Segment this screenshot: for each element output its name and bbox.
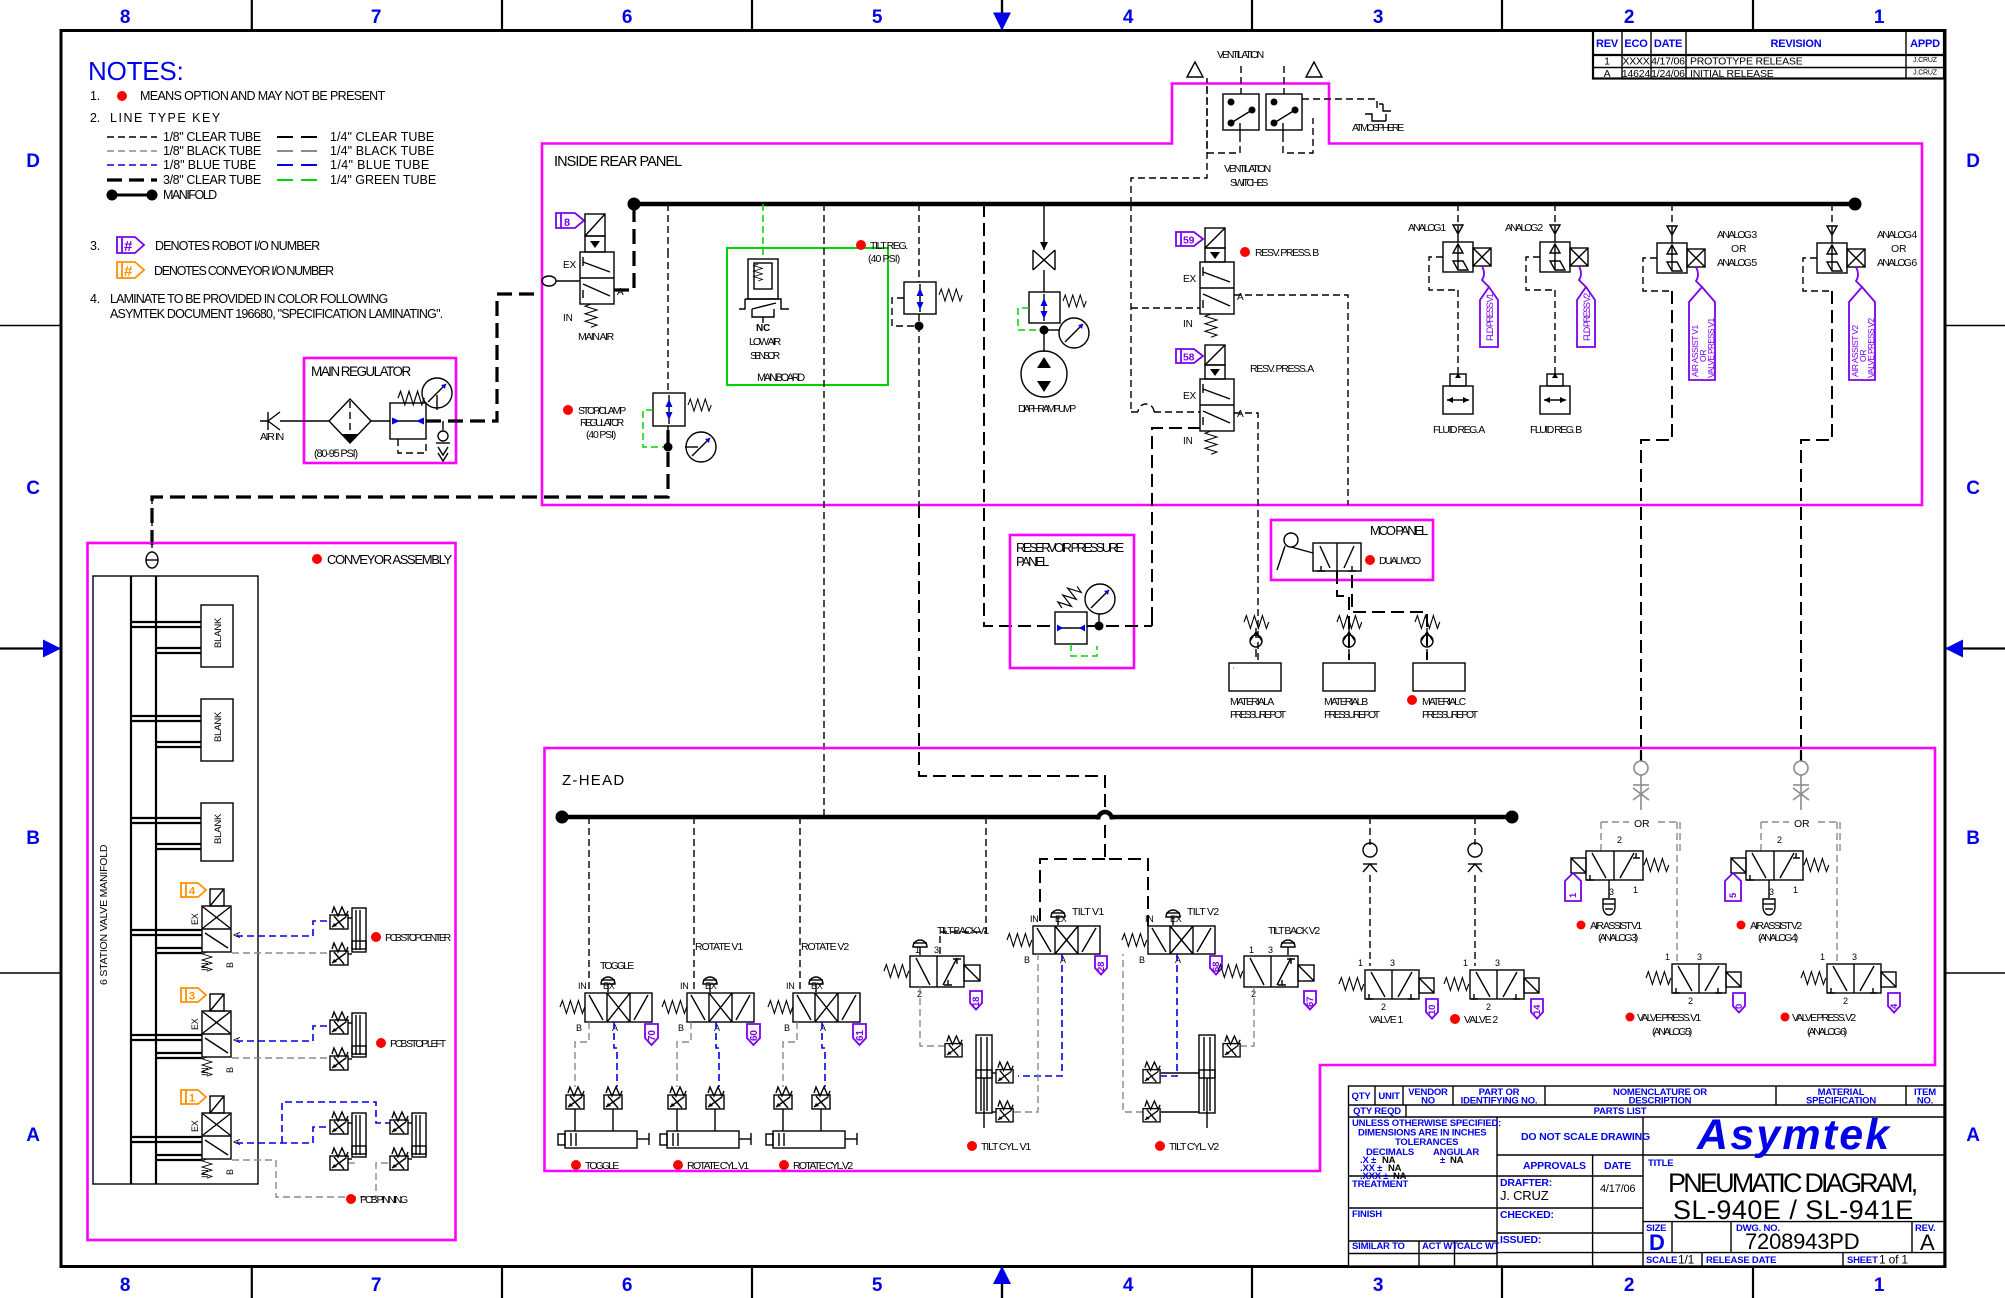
svg-text:LINE TYPE KEY: LINE TYPE KEY (110, 111, 221, 125)
svg-text:3: 3 (1769, 887, 1774, 897)
wires: ventilation dashes (1240, 66, 1242, 94)
wire: material region to z-head tilt network (1104, 816, 1106, 818)
flow controls + cylinder PCB PINNING 2 (346, 1112, 426, 1206)
svg-text:18: 18 (971, 997, 982, 1007)
svg-text:LOW AIR: LOW AIR (749, 336, 782, 348)
flow controls + cylinder PCB PINNING 1 (330, 1112, 366, 1170)
svg-text:IN: IN (1145, 914, 1154, 924)
svg-text:BLANK: BLANK (213, 711, 224, 742)
ventilation switch 2 (1266, 94, 1302, 135)
svg-text:EX: EX (190, 1018, 200, 1030)
svg-text:PRESSURE POT: PRESSURE POT (1230, 709, 1287, 721)
svg-text:A: A (1175, 955, 1181, 965)
cylinder TILT CYL. V2 (1143, 1035, 1240, 1153)
wire: tilt v1 A to tilt cyl v1 (1018, 954, 1062, 1076)
svg-text:MATERIAL C: MATERIAL C (1422, 696, 1467, 708)
svg-text:VALVE PRESS V2: VALVE PRESS V2 (1866, 318, 1876, 378)
valve MAIN AIR (robot IO 8) (542, 213, 624, 343)
svg-text:IN: IN (1030, 914, 1039, 924)
valve AIR ASSIST V1 (robot IO 1) (1565, 835, 1669, 944)
check valve drop to valve 2 (1474, 817, 1476, 845)
svg-text:VALVE 2: VALVE 2 (1464, 1014, 1498, 1026)
filter F1 (329, 399, 371, 443)
svg-text:1: 1 (1358, 958, 1363, 968)
svg-text:1: 1 (1874, 7, 1885, 28)
svg-text:(ANALOG 5): (ANALOG 5) (1652, 1026, 1692, 1038)
svg-text:6: 6 (622, 1275, 632, 1296)
svg-text:EX: EX (1183, 391, 1196, 402)
svg-text:1/8" BLUE TUBE: 1/8" BLUE TUBE (163, 158, 256, 172)
svg-text:A: A (820, 1023, 826, 1033)
valve STOP/CLAMP REGULATOR (563, 393, 716, 462)
svg-text:PCB PINNING: PCB PINNING (360, 1194, 408, 1206)
svg-text:D: D (1649, 1230, 1665, 1255)
svg-text:TILT V2: TILT V2 (1187, 906, 1219, 918)
svg-text:1: 1 (1820, 952, 1825, 962)
wire: tilt v2 A to tilt cyl v2 (1161, 954, 1177, 1076)
svg-text:RELEASE DATE: RELEASE DATE (1706, 1255, 1776, 1266)
svg-text:IN: IN (1183, 319, 1193, 330)
svg-text:4: 4 (1123, 7, 1134, 28)
svg-text:(80-95 PSI): (80-95 PSI) (314, 448, 358, 460)
wire: stop/clamp vertical dashed (667, 251, 669, 393)
svg-text:EX: EX (811, 981, 823, 991)
blank station 3 (131, 803, 233, 861)
blank station 2 (131, 699, 233, 761)
svg-text:DUAL MCO: DUAL MCO (1379, 555, 1421, 567)
svg-text:REVISION: REVISION (1771, 38, 1822, 50)
svg-text:1/24/06: 1/24/06 (1651, 68, 1685, 80)
svg-text:A: A (612, 1023, 618, 1033)
svg-text:VENTILATION: VENTILATION (1217, 49, 1264, 61)
svg-text:FINISH: FINISH (1352, 1209, 1382, 1220)
svg-text:ANALOG 6: ANALOG 6 (1877, 257, 1917, 269)
svg-text:EX: EX (1055, 914, 1067, 924)
svg-text:SWITCHES: SWITCHES (1230, 177, 1268, 189)
flow controls + cylinder ROTATE CYL. V1 (660, 1087, 751, 1172)
svg-text:DIAPHRAM PUMP: DIAPHRAM PUMP (1018, 403, 1076, 415)
svg-text:BLANK: BLANK (213, 813, 224, 844)
valve TILT REG (856, 240, 962, 331)
svg-text:NA: NA (1450, 1155, 1464, 1166)
svg-text:B: B (576, 1023, 582, 1033)
svg-text:2: 2 (1688, 996, 1693, 1006)
svg-text:PANEL: PANEL (1016, 554, 1049, 569)
wires: station4 to pcb stop center (236, 921, 330, 936)
svg-text:3: 3 (1373, 1275, 1383, 1296)
svg-text:1/4" BLACK TUBE: 1/4" BLACK TUBE (330, 144, 434, 158)
wire: 3/8 feed down-left to conveyor (152, 430, 668, 545)
valve ANALOG 2 fluid press (1505, 222, 1595, 347)
pot MATERIAL B PRESSURE POT (1323, 663, 1381, 721)
wires: MCO outputs to pots (1337, 571, 1349, 660)
svg-text:FLUID REG. B: FLUID REG. B (1530, 424, 1582, 436)
svg-text:Asymtek: Asymtek (1696, 1111, 1891, 1159)
wires: analog3/4 drops to z-head right (1641, 291, 1672, 755)
flow controls + cylinder TOGGLE (558, 1087, 649, 1172)
wires: station3 to pcb stop left (236, 1026, 330, 1041)
svg-text:8: 8 (120, 1275, 130, 1296)
svg-text:(ANALOG 3): (ANALOG 3) (1598, 932, 1638, 944)
svg-text:1: 1 (1463, 958, 1468, 968)
svg-text:IN: IN (786, 981, 795, 991)
gauge G1 (422, 378, 452, 410)
svg-text:60: 60 (749, 1030, 760, 1041)
wires: station1 gray returns (232, 1160, 390, 1197)
check valve CV1 (436, 421, 450, 461)
atmosphere symbol (1352, 104, 1404, 134)
conveyor IO tag sample (117, 262, 144, 278)
svg-text:ROTATE V1: ROTATE V1 (695, 941, 743, 953)
wire: manifold feed to reservoir panel at 984 (984, 204, 1056, 626)
Z-HEAD box (545, 748, 1936, 1171)
title block labels left (1352, 1179, 1500, 1252)
wires: manifold drops to analog valves (1457, 204, 1459, 234)
svg-text:70: 70 (647, 1030, 658, 1041)
svg-text:B: B (678, 1023, 684, 1033)
low air sensor NC switch (739, 259, 789, 334)
check valve drop to valve 1 (1369, 817, 1371, 845)
svg-text:1: 1 (1249, 945, 1254, 955)
svg-text:TILT V1: TILT V1 (1072, 906, 1104, 918)
svg-text:1: 1 (189, 1093, 195, 1105)
svg-text:A: A (232, 1037, 242, 1043)
svg-text:AIR IN: AIR IN (260, 431, 284, 443)
svg-text:4/17/06: 4/17/06 (1600, 1183, 1635, 1195)
svg-text:14624: 14624 (1622, 68, 1651, 80)
wire: bold dashed feed to tilt network (919, 505, 1105, 809)
INSIDE REAR PANEL box (542, 84, 1922, 506)
svg-text:ANALOG 2: ANALOG 2 (1505, 222, 1543, 234)
svg-text:2: 2 (1843, 996, 1848, 1006)
cylinder TILT CYL. V1 (945, 1035, 1031, 1153)
svg-text:MANIFOLD: MANIFOLD (163, 188, 217, 202)
svg-text:A: A (1604, 68, 1611, 80)
svg-text:ANALOG 1: ANALOG 1 (1408, 222, 1446, 234)
svg-text:2.: 2. (90, 111, 100, 125)
conveyor valve station tag 4 (181, 883, 206, 898)
svg-text:D: D (1966, 151, 1980, 172)
wire: resv B output to MCO (1234, 295, 1348, 505)
svg-text:EX: EX (1170, 914, 1182, 924)
svg-text:3: 3 (934, 945, 939, 955)
valve TILT V1 (robot IO 28) (1007, 906, 1107, 975)
svg-text:3: 3 (1609, 887, 1614, 897)
pot MATERIAL A PRESSURE POT (1229, 663, 1287, 721)
wire: gray return tilt cyl v1 (1014, 954, 1038, 1112)
svg-text:SPECIFICATION: SPECIFICATION (1806, 1096, 1876, 1107)
wire: main air A port up to manifold (614, 204, 634, 290)
svg-text:3: 3 (1852, 952, 1857, 962)
wire filter to regulator (371, 420, 390, 422)
parts list header labels (1352, 1087, 1937, 1117)
svg-text:IN: IN (563, 313, 573, 324)
valve ROTATE V1 (robot IO 60) (662, 941, 760, 1045)
svg-text:CALC WT: CALC WT (1457, 1241, 1500, 1252)
svg-text:1: 1 (1633, 885, 1638, 895)
svg-text:MATERIAL B: MATERIAL B (1324, 696, 1368, 708)
svg-text:OR: OR (1794, 818, 1810, 830)
svg-text:APPROVALS: APPROVALS (1523, 1160, 1586, 1172)
svg-text:SHEET: SHEET (1847, 1255, 1878, 1266)
svg-text:NOTES:: NOTES: (88, 56, 184, 86)
svg-text:1: 1 (1604, 56, 1610, 68)
svg-text:4/17/06: 4/17/06 (1651, 56, 1685, 68)
svg-text:3: 3 (1390, 958, 1395, 968)
approvals block (1500, 1131, 1650, 1246)
CONVEYOR ASSEMBLY box (88, 543, 456, 1240)
valve RESV. PRESS. A (robot IO 58) (1176, 345, 1314, 454)
svg-text:INITIAL RELEASE: INITIAL RELEASE (1690, 68, 1774, 80)
wire: main regulator output 3/8 tube to main air valve (426, 294, 540, 421)
svg-text:TILT CYL. V2: TILT CYL. V2 (1169, 1141, 1219, 1153)
zone tick marks bottom (251, 1266, 253, 1298)
svg-text:MEANS OPTION AND MAY NOT BE PR: MEANS OPTION AND MAY NOT BE PRESENT (140, 89, 386, 103)
valve RESV. PRESS. B (robot IO 59) (1176, 228, 1319, 337)
svg-text:ACT WT: ACT WT (1422, 1241, 1458, 1252)
svg-text:DESCRIPTION: DESCRIPTION (1629, 1096, 1692, 1107)
svg-text:NC: NC (756, 323, 770, 334)
svg-text:(40 PSI): (40 PSI) (868, 253, 900, 265)
svg-text:MATERIAL A: MATERIAL A (1230, 696, 1274, 708)
manifold bus (inside rear panel) (628, 198, 1862, 211)
valve TOGGLE (robot IO 70) (560, 960, 658, 1045)
svg-text:3.: 3. (90, 239, 100, 253)
svg-text:MAIN AIR: MAIN AIR (578, 331, 615, 343)
wires: reservoir panel feeds (1087, 620, 1152, 626)
manifold inlet fitting (146, 552, 158, 568)
svg-text:B: B (1966, 828, 1980, 849)
svg-text:B: B (1024, 955, 1030, 965)
svg-text:LAMINATE TO BE PROVIDED IN COL: LAMINATE TO BE PROVIDED IN COLOR FOLLOWI… (110, 292, 388, 306)
svg-text:67: 67 (1305, 997, 1316, 1007)
svg-text:4.: 4. (90, 292, 100, 306)
valve TILT BACK V2 (robot IO 67) (1218, 925, 1320, 1010)
svg-text:RESERVOIR PRESSURE: RESERVOIR PRESSURE (1016, 540, 1125, 555)
svg-text:PCB STOP CENTER: PCB STOP CENTER (385, 932, 452, 944)
svg-text:A: A (1060, 955, 1066, 965)
ventilation triangles (1187, 62, 1203, 77)
svg-text:5: 5 (872, 7, 883, 28)
svg-text:10: 10 (1427, 1005, 1438, 1015)
svg-text:7: 7 (371, 7, 381, 28)
svg-text:61: 61 (855, 1030, 866, 1041)
valve VALVE 2 (robot IO 14) (1444, 958, 1543, 1026)
svg-text:OR: OR (1634, 818, 1650, 830)
svg-text:ISSUED:: ISSUED: (1500, 1234, 1541, 1246)
valve station 1 (131, 1096, 242, 1178)
valve station 4 (131, 889, 242, 971)
wire: tilt back v2 port2 to tilt cyl v2 (1241, 987, 1254, 1046)
svg-text:IDENTIFYING NO.: IDENTIFYING NO. (1461, 1096, 1538, 1107)
wires: drops from z-head manifold (588, 817, 590, 993)
svg-text:6 STATION VALVE MANIFOLD: 6 STATION VALVE MANIFOLD (98, 844, 110, 985)
svg-text:2: 2 (1624, 1275, 1634, 1296)
svg-text:IN: IN (1183, 436, 1193, 447)
RESERVOIR PRESSURE PANEL box (1010, 535, 1134, 668)
svg-text:ROTATE CYL. V1: ROTATE CYL. V1 (687, 1160, 749, 1172)
flow controls + cylinder PCB STOP CENTER (330, 907, 452, 965)
valve ANALOG 1 fluid press (1408, 222, 1498, 347)
svg-text:MAIN REGULATOR: MAIN REGULATOR (311, 364, 411, 379)
svg-text:EX: EX (705, 981, 717, 991)
svg-text:(ANALOG 6): (ANALOG 6) (1807, 1026, 1847, 1038)
svg-text:PRESSURE POT: PRESSURE POT (1422, 709, 1479, 721)
svg-text:ROTATE CYL.V2: ROTATE CYL.V2 (793, 1160, 853, 1172)
svg-text:1/8" CLEAR TUBE: 1/8" CLEAR TUBE (163, 130, 261, 144)
svg-text:7208943PD: 7208943PD (1745, 1229, 1859, 1254)
svg-text:VALVE 1: VALVE 1 (1369, 1014, 1403, 1026)
air in port (260, 412, 284, 443)
svg-text:IN: IN (578, 981, 587, 991)
valve VALVE 1 (robot IO 10) (1339, 958, 1438, 1026)
svg-text:CHECKED:: CHECKED: (1500, 1209, 1554, 1221)
svg-text:1/4" BLUE TUBE: 1/4" BLUE TUBE (330, 158, 429, 172)
svg-text:SENSOR: SENSOR (750, 350, 781, 362)
valve TILT BACK V1 (robot IO 18) (884, 925, 989, 1010)
svg-text:B: B (784, 1023, 790, 1033)
wires: resv press feeds from manifold (1130, 204, 1132, 412)
wire: tilt back v1 port2 to tilt cyl v1 (920, 987, 949, 1046)
valve MCO (manual lever) (1277, 533, 1361, 571)
MAIN BOARD green box (727, 248, 888, 385)
valve VALVE PRESS. V2 (robot IO 4) (1781, 952, 1901, 1038)
svg-text:2: 2 (1381, 1002, 1386, 1012)
svg-text:DATE: DATE (1654, 38, 1682, 50)
svg-text:0: 0 (1734, 1004, 1745, 1009)
svg-text:3: 3 (1268, 945, 1273, 955)
svg-text:ASYMTEK DOCUMENT 196680, "SPEC: ASYMTEK DOCUMENT 196680, "SPECIFICATION … (110, 307, 443, 321)
regulator (reservoir) (1055, 583, 1115, 656)
svg-text:EX: EX (603, 981, 615, 991)
OR selector figure (air assist v2) (1793, 761, 1809, 810)
flow controls + cylinder ROTATE CYL.V2 (766, 1087, 857, 1172)
svg-text:2: 2 (1486, 1002, 1491, 1012)
svg-text:B: B (225, 1169, 235, 1175)
wire air in to filter (280, 420, 330, 422)
pot MATERIAL C PRESSURE POT (1407, 663, 1479, 721)
svg-text:ANALOG 3: ANALOG 3 (1717, 229, 1757, 241)
svg-text:RESV. PRESS. B: RESV. PRESS. B (1255, 247, 1319, 259)
svg-text:MAIN BOARD: MAIN BOARD (757, 372, 805, 384)
svg-text:(ANALOG 4): (ANALOG 4) (1758, 932, 1798, 944)
fluid regulator FLUID REG. A (1433, 373, 1485, 436)
valve TILT V2 (robot IO 68) (1122, 906, 1222, 975)
svg-text:(40 PSI): (40 PSI) (586, 429, 616, 441)
title block: parts list table (1349, 1086, 1945, 1266)
flow controls + cylinder PCB STOP LEFT (330, 1012, 447, 1070)
svg-text:3: 3 (189, 991, 195, 1003)
svg-text:VALVE PRESS. V1: VALVE PRESS. V1 (1637, 1012, 1701, 1024)
svg-text:PRESSURE POT: PRESSURE POT (1324, 709, 1381, 721)
svg-text:SL-940E / SL-941E: SL-940E / SL-941E (1673, 1195, 1913, 1225)
svg-text:VALVE PRESS V1: VALVE PRESS V1 (1706, 318, 1716, 378)
wire: analog1 drop to fluid reg A (1457, 290, 1459, 374)
svg-text:B: B (225, 1067, 235, 1073)
svg-text:3: 3 (1495, 958, 1500, 968)
blank station 1 (131, 605, 233, 667)
svg-text:A: A (714, 1023, 720, 1033)
svg-text:IN: IN (200, 1067, 210, 1076)
wire: green dashed manifold to sensor (762, 204, 764, 259)
svg-text:1/4" GREEN TUBE: 1/4" GREEN TUBE (330, 173, 436, 187)
svg-text:IN: IN (200, 1169, 210, 1178)
svg-text:QTY REQD: QTY REQD (1353, 1106, 1401, 1117)
svg-text:58: 58 (1183, 352, 1195, 364)
OR selector figure (air assist v1) (1633, 761, 1649, 810)
svg-text:C: C (26, 478, 40, 499)
svg-text:1.: 1. (90, 89, 100, 103)
svg-text:J. CRUZ: J. CRUZ (1500, 1188, 1549, 1203)
svg-text:SIMILAR TO: SIMILAR TO (1352, 1241, 1405, 1252)
wires: rotate v2 to cylinder (822, 1022, 825, 1087)
ventilation switch 1 (1223, 94, 1259, 135)
svg-text:CONVEYOR ASSEMBLY: CONVEYOR ASSEMBLY (327, 552, 453, 567)
svg-text:EX: EX (1183, 274, 1196, 285)
svg-text:J.CRUZ: J.CRUZ (1913, 57, 1938, 64)
diaphragm pump (1018, 330, 1076, 415)
svg-text:AIR ASSIST V2: AIR ASSIST V2 (1750, 920, 1802, 932)
svg-text:DATE: DATE (1604, 1160, 1631, 1172)
svg-text:6: 6 (622, 7, 632, 28)
wires: station1 blue to pcb pinning cylinders (236, 1127, 330, 1143)
conveyor valve station tag 3 (181, 988, 206, 1003)
svg-text:8: 8 (564, 217, 570, 229)
wire: drop to z-head manifold at 824 (823, 204, 825, 817)
svg-text:14: 14 (1532, 1004, 1543, 1015)
svg-text:7: 7 (371, 1275, 381, 1296)
svg-text:28: 28 (1096, 962, 1107, 972)
MCO PANEL box (1271, 520, 1433, 580)
svg-text:A: A (26, 1125, 40, 1146)
manifold bus (z-head) (556, 811, 1519, 824)
center fold arrows (0, 647, 61, 649)
svg-text:ECO: ECO (1624, 38, 1648, 50)
valve AIR ASSIST V2 (robot IO 5) (1725, 835, 1829, 944)
svg-text:A: A (232, 932, 242, 938)
svg-text:AIR ASSIST V1: AIR ASSIST V1 (1590, 920, 1642, 932)
svg-text:TILT BACK V2: TILT BACK V2 (1268, 925, 1320, 937)
svg-text:1: 1 (1793, 885, 1798, 895)
svg-text:PROTOTYPE RELEASE: PROTOTYPE RELEASE (1690, 56, 1803, 68)
svg-text:2: 2 (1777, 835, 1782, 845)
svg-text:VALVE PRESS. V2: VALVE PRESS. V2 (1792, 1012, 1856, 1024)
6 station valve manifold body (93, 576, 258, 1184)
robot IO tag sample (117, 237, 144, 253)
wire to atmosphere (1302, 99, 1377, 112)
svg-text:FLUID REG. A: FLUID REG. A (1433, 424, 1485, 436)
valve ANALOG 4 OR ANALOG 6 (1803, 226, 1917, 380)
svg-text:DENOTES ROBOT I/O NUMBER: DENOTES ROBOT I/O NUMBER (155, 239, 320, 253)
svg-text:3/8" CLEAR TUBE: 3/8" CLEAR TUBE (163, 173, 261, 187)
valve ROTATE V2 (robot IO 61) (768, 941, 866, 1045)
svg-text:A: A (1237, 292, 1244, 303)
revision table (1593, 31, 1944, 79)
wire: resv A output down to pot A (1234, 413, 1258, 663)
svg-text:1/4" CLEAR TUBE: 1/4" CLEAR TUBE (330, 130, 434, 144)
svg-text:1: 1 (1665, 952, 1670, 962)
svg-text:ATMOSPHERE: ATMOSPHERE (1352, 122, 1404, 134)
svg-text:8: 8 (120, 7, 130, 28)
svg-text:4: 4 (1123, 1275, 1134, 1296)
wires: toggle to cylinder (614, 1022, 617, 1087)
svg-text:FLD PRESS V2: FLD PRESS V2 (1582, 293, 1592, 341)
svg-text:MCO PANEL: MCO PANEL (1370, 523, 1428, 538)
fluid regulator FLUID REG. B (1530, 373, 1582, 436)
svg-text:C: C (1966, 478, 1980, 499)
svg-text:PNEUMATIC DIAGRAM,: PNEUMATIC DIAGRAM, (1668, 1168, 1918, 1198)
svg-text:TILT REG.: TILT REG. (870, 240, 908, 252)
